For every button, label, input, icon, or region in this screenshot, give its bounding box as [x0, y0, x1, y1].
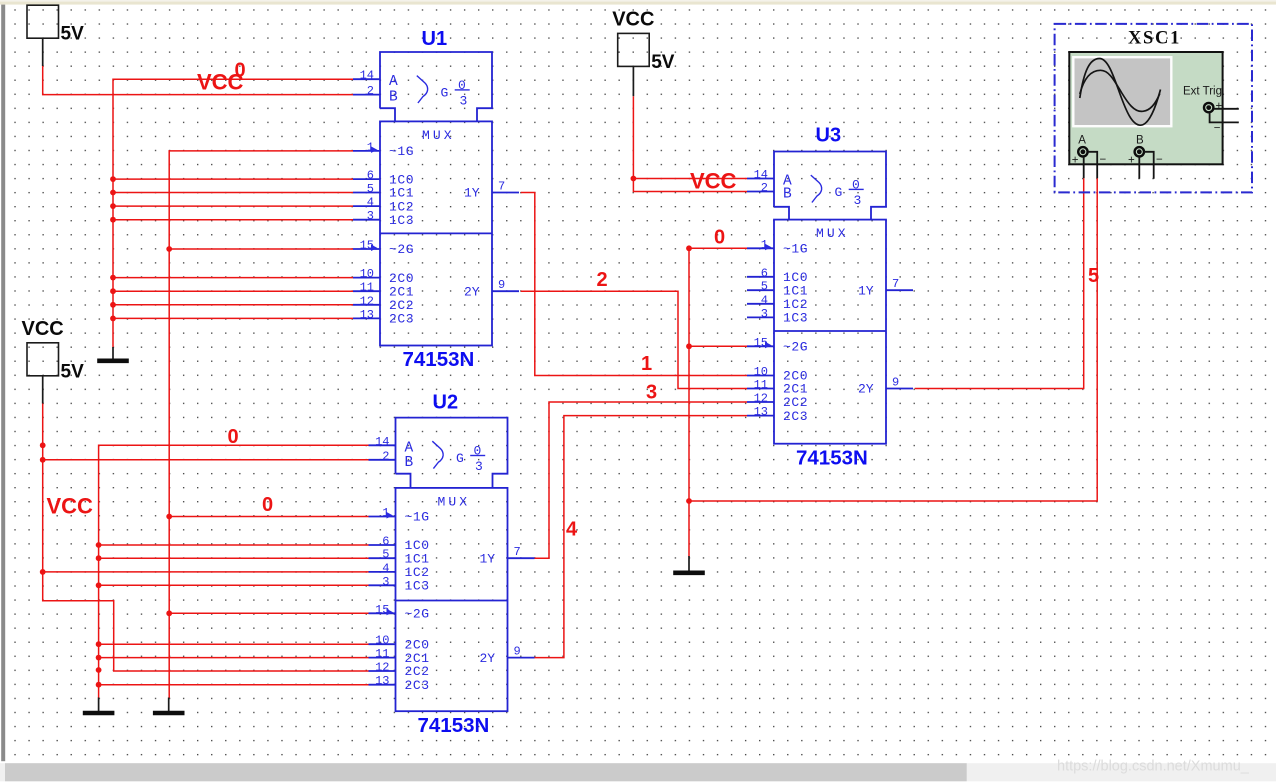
- junction U2 pin 15 branch: [166, 610, 172, 616]
- wire net 0: bus to U2 pin 11: [99, 657, 369, 659]
- wire net 0: bus to U2 pin 3: [99, 584, 369, 586]
- U1 section divider: [380, 232, 492, 234]
- U2 output pin stubs 7 and 9: [508, 558, 535, 657]
- svg-text:0: 0: [228, 426, 239, 448]
- U3 select inputs A B: [783, 174, 792, 203]
- window chrome top strip: [0, 0, 1276, 5]
- oscilloscope XSC1: [1055, 24, 1252, 193]
- U1 select inputs A B: [389, 74, 398, 105]
- junction U3 net0 pin 1: [686, 245, 692, 251]
- wire net VCC: branch to U3 pin 14: [633, 178, 747, 180]
- svg-text:+: +: [1072, 155, 1079, 167]
- svg-text:Ext Trig: Ext Trig: [1183, 85, 1222, 97]
- wire net 0: bus to U2 pin 10: [99, 643, 369, 645]
- svg-text:G: G: [835, 185, 843, 200]
- svg-text:7: 7: [498, 180, 505, 194]
- wire net 3: U2 1Y to U3 pin 12: [535, 402, 748, 558]
- svg-text:5: 5: [1088, 265, 1099, 287]
- U1 common select brace: [417, 76, 428, 103]
- XSC1 Ext Trig connector: [1204, 103, 1213, 112]
- wire net 1: U1 1Y to U3 pin 10: [521, 193, 747, 376]
- XSC1 selection dashed boundary: [1055, 24, 1252, 193]
- junction U2 pin 1 branch: [166, 514, 172, 520]
- junction U2 bus node b: [96, 667, 102, 673]
- U2 left pin stubs: [369, 445, 396, 684]
- svg-text:10: 10: [360, 267, 374, 281]
- svg-text:2C3: 2C3: [389, 312, 414, 327]
- U2 common select brace: [432, 441, 443, 468]
- svg-text:10: 10: [754, 365, 768, 379]
- svg-text:XSC1: XSC1: [1128, 29, 1181, 49]
- svg-text:1C3: 1C3: [389, 213, 414, 228]
- junction VCC2 node a: [40, 442, 46, 448]
- wire net 0: bus to U1 pin 4: [113, 205, 353, 207]
- U2 G 0/3 label: [456, 444, 483, 475]
- svg-text:4: 4: [367, 196, 374, 210]
- svg-text:3: 3: [761, 307, 768, 321]
- svg-text:6: 6: [367, 169, 374, 183]
- svg-text:3: 3: [475, 459, 483, 474]
- wire net VCC: branch to U2 pin 2: [43, 459, 369, 461]
- svg-text:+: +: [1216, 101, 1223, 113]
- junction U1 bus 2C0: [110, 275, 116, 281]
- wire net 0: bus to U1 pin 10: [113, 277, 353, 279]
- svg-text:2Y: 2Y: [480, 651, 496, 666]
- svg-text:−: −: [1214, 123, 1221, 135]
- junction U1 bus 1C0: [110, 176, 116, 182]
- svg-text:5: 5: [382, 548, 389, 562]
- svg-text:5V: 5V: [651, 52, 675, 73]
- junction U2 bus 1C3: [96, 582, 102, 588]
- svg-text:12: 12: [754, 392, 768, 406]
- XSC1 channel A connector: [1078, 147, 1087, 156]
- svg-text:2Y: 2Y: [464, 284, 480, 299]
- svg-text:5: 5: [761, 280, 768, 294]
- wire net 0: bus to U1 pin 12: [113, 304, 353, 306]
- svg-text:12: 12: [360, 294, 374, 308]
- svg-text:10: 10: [375, 634, 389, 648]
- svg-text:74153N: 74153N: [403, 348, 475, 371]
- svg-text:3: 3: [367, 209, 374, 223]
- U2 section divider: [396, 600, 508, 602]
- wire net 0: bus to U1 pin 11: [113, 290, 353, 292]
- svg-text:VCC: VCC: [612, 8, 654, 30]
- svg-text:G: G: [441, 85, 449, 100]
- svg-text:1Y: 1Y: [480, 551, 496, 566]
- svg-text:4: 4: [566, 519, 578, 541]
- wire net 0: U1 pin 14 (A) to ground bus: [113, 79, 353, 347]
- U2 input labels: [405, 510, 430, 693]
- U3 left pin stubs: [747, 179, 774, 416]
- svg-text:1Y: 1Y: [464, 186, 480, 201]
- U3 common select brace: [811, 175, 822, 202]
- svg-text:5: 5: [367, 182, 374, 196]
- svg-text:2: 2: [382, 449, 389, 463]
- XSC1 channel A pin stubs: [1083, 157, 1085, 178]
- svg-text:~2G: ~2G: [405, 607, 430, 622]
- svg-text:0: 0: [474, 444, 482, 459]
- svg-text:1: 1: [367, 140, 374, 154]
- wire net VCC: VCC3 source to U3 pin 2: [633, 96, 747, 191]
- svg-text:1Y: 1Y: [858, 283, 874, 298]
- svg-text:G: G: [456, 451, 464, 466]
- multiplexer U1 74153N: [353, 52, 519, 346]
- svg-text:2C3: 2C3: [783, 409, 808, 424]
- U2 select inputs A B: [405, 440, 414, 471]
- svg-text:U2: U2: [433, 392, 459, 414]
- svg-text:0: 0: [458, 78, 466, 93]
- svg-text:1C3: 1C3: [783, 311, 808, 326]
- U1 pin number labels: [360, 69, 506, 322]
- wire net 4: U2 2Y to U3 pin 13: [535, 416, 748, 658]
- U3 MUX body outline: [774, 220, 886, 444]
- svg-text:U3: U3: [816, 125, 842, 147]
- multiplexer U2 74153N: [369, 418, 535, 712]
- svg-text:12: 12: [375, 661, 389, 675]
- junction U2 bus 1C0: [96, 542, 102, 548]
- wire net VCC: branch to U2 pin 4: [43, 571, 369, 573]
- svg-text:U1: U1: [422, 28, 448, 50]
- svg-text:14: 14: [375, 435, 389, 449]
- svg-text:74153N: 74153N: [418, 714, 490, 737]
- U1 common-control block outline: [380, 52, 492, 121]
- svg-text:14: 14: [754, 168, 768, 182]
- svg-text:11: 11: [375, 647, 389, 661]
- wire net VCC: VCC2 source down to U2 pin 12 branch: [43, 404, 369, 672]
- U3 common-control block outline: [774, 152, 886, 220]
- U1 left pin stubs: [353, 79, 380, 318]
- XSC1 screen waveform 1: [1080, 59, 1161, 126]
- XSC1 channel B pin stubs: [1139, 152, 1153, 179]
- svg-text:~2G: ~2G: [783, 340, 808, 355]
- svg-text:4: 4: [382, 561, 389, 575]
- svg-text:13: 13: [360, 308, 374, 322]
- svg-text:https://blog.csdn.net/Xmumu_: https://blog.csdn.net/Xmumu_: [1057, 759, 1250, 775]
- svg-text:5V: 5V: [61, 24, 85, 45]
- svg-text:14: 14: [360, 69, 374, 83]
- ground G1 (U1 input bus): [97, 347, 129, 361]
- svg-text:A: A: [389, 74, 398, 90]
- wire net 0: bus to U2 pin 5: [99, 557, 369, 559]
- wire net 0: bus to U2 pin 6: [99, 544, 369, 546]
- svg-text:A: A: [1078, 135, 1086, 147]
- svg-text:~1G: ~1G: [389, 144, 414, 159]
- svg-text:13: 13: [375, 674, 389, 688]
- svg-text:11: 11: [754, 378, 768, 392]
- XSC1 Ext Trig minus wire: [1210, 113, 1239, 123]
- junction U1 bus 1C1: [110, 190, 116, 196]
- junction U1 bus 1C2: [110, 203, 116, 209]
- svg-text:1: 1: [641, 353, 652, 375]
- svg-text:1: 1: [382, 506, 389, 520]
- horizontal scrollbar thumb: [5, 763, 967, 781]
- power source VCC2 5V: [22, 318, 85, 404]
- svg-text:MUX: MUX: [816, 226, 849, 241]
- multiplexer U3 74153N: [747, 152, 913, 444]
- power source VCC3 5V: [612, 8, 675, 96]
- junction VCC2 to U2 pin 4: [40, 569, 46, 575]
- wire net 0: bus to U1 pin 5: [113, 192, 353, 194]
- horizontal scrollbar track: [0, 763, 1276, 781]
- ground G2 (U2 input bus): [83, 698, 115, 714]
- wire net 0: U3 pin 1 branch down to ground G4: [689, 248, 747, 556]
- svg-text:5V: 5V: [61, 361, 85, 382]
- U1 MUX body outline: [380, 121, 492, 345]
- wire net 0: branch to U2 pin 1: [169, 516, 368, 518]
- svg-text:B: B: [389, 90, 398, 106]
- XSC1 channel B connector: [1135, 147, 1144, 156]
- U1 input labels: [389, 144, 414, 327]
- svg-text:9: 9: [498, 278, 505, 292]
- junction U1 bus 2C2: [110, 302, 116, 308]
- svg-text:4: 4: [761, 293, 768, 307]
- svg-text:1: 1: [761, 238, 768, 252]
- wire net 0: bus to U1 pin 13: [113, 317, 353, 319]
- svg-text:11: 11: [360, 281, 374, 295]
- svg-text:0: 0: [714, 227, 725, 249]
- U2 MUX body outline: [396, 488, 508, 711]
- U2 pin number labels: [375, 435, 521, 688]
- wire net 0: branch to U3 pin 15: [689, 345, 747, 347]
- svg-text:6: 6: [382, 535, 389, 549]
- svg-text:3: 3: [382, 575, 389, 589]
- svg-text:0: 0: [262, 494, 273, 516]
- svg-text:~1G: ~1G: [783, 242, 808, 257]
- U3 pin number labels: [754, 168, 900, 419]
- power source VCC1 5V: [27, 5, 84, 66]
- U3 output pin stubs 7 and 9: [886, 290, 913, 388]
- junction U2 bus 2C0: [96, 641, 102, 647]
- U3 input labels: [783, 242, 808, 424]
- U2 common-control block outline: [396, 418, 508, 488]
- U3 pin 1 and 15 arrows: [765, 244, 772, 251]
- wire net 2: U1 2Y to U3 pin 11: [521, 291, 747, 388]
- svg-text:3: 3: [854, 193, 862, 208]
- wire net VCC: VCC1 source to U1 pin 2 (B): [43, 66, 353, 95]
- svg-text:7: 7: [892, 277, 899, 291]
- ground G4 (U3 net): [673, 556, 705, 573]
- wire net 0: bus to U2 pin 13: [99, 684, 369, 686]
- junction U3 net0 pin 15: [686, 343, 692, 349]
- svg-text:1C3: 1C3: [405, 579, 430, 594]
- junction U2 bus 1C1: [96, 555, 102, 561]
- svg-text:2C3: 2C3: [405, 678, 430, 693]
- svg-text:~1G: ~1G: [405, 510, 430, 525]
- svg-text:−: −: [1156, 154, 1163, 166]
- svg-text:VCC: VCC: [47, 494, 94, 519]
- junction U1 bus 1C3: [110, 217, 116, 223]
- svg-text:2Y: 2Y: [858, 382, 874, 397]
- svg-text:~2G: ~2G: [389, 242, 414, 257]
- junction U2 bus 2C1: [96, 655, 102, 661]
- svg-text:13: 13: [754, 405, 768, 419]
- junction U3 net0 scope branch: [686, 498, 692, 504]
- svg-text:B: B: [405, 455, 414, 471]
- U3 section divider: [774, 330, 886, 332]
- U3 G 0/3 label: [835, 177, 862, 208]
- svg-text:+: +: [1128, 155, 1135, 167]
- svg-text:0: 0: [235, 60, 246, 82]
- svg-text:74153N: 74153N: [796, 447, 868, 470]
- U1 pin 1 and 15 arrows: [371, 146, 378, 153]
- svg-text:3: 3: [460, 93, 468, 108]
- junction U2 bus 2C3: [96, 682, 102, 688]
- svg-text:9: 9: [892, 376, 899, 390]
- junction VCC2 to U2 pin 2: [40, 457, 46, 463]
- svg-text:7: 7: [514, 545, 521, 559]
- wire net 0: branch to U1 pin 15: [169, 248, 353, 250]
- svg-text:9: 9: [514, 645, 521, 659]
- wire net 0: U1 pin 1 down to ground G3: [169, 151, 353, 698]
- junction U1 bus 2C1: [110, 288, 116, 294]
- wire net 5: U3 2Y to scope A+ input: [915, 178, 1084, 388]
- junction VCC3 to U3 pin 14: [631, 176, 637, 182]
- wire net 0: branch to scope A- input: [689, 178, 1097, 501]
- U1 output pin stubs 7 and 9: [492, 193, 519, 292]
- ground G3 (select net): [153, 698, 185, 714]
- XSC1 instrument body: [1069, 52, 1222, 164]
- U2 pin 1 and 15 arrows: [387, 512, 394, 519]
- svg-text:B: B: [1136, 135, 1144, 147]
- XSC1 screen waveform 2: [1080, 70, 1160, 111]
- wire net 0: bus to U1 pin 3: [113, 219, 353, 221]
- svg-text:VCC: VCC: [690, 169, 737, 194]
- svg-text:B: B: [783, 187, 792, 203]
- svg-text:VCC: VCC: [22, 318, 64, 340]
- svg-text:2: 2: [597, 269, 608, 291]
- junction U1 bus 2C3: [110, 316, 116, 322]
- wire net 0: bus to U1 pin 6: [113, 178, 353, 180]
- wire net 0: branch to U2 pin 15: [169, 612, 368, 614]
- XSC1 screen: [1073, 57, 1171, 126]
- svg-text:3: 3: [646, 382, 657, 404]
- wire net 0: U2 pin 14 to ground bus G2: [99, 445, 369, 698]
- svg-text:2: 2: [761, 181, 768, 195]
- svg-text:0: 0: [852, 177, 860, 192]
- svg-text:MUX: MUX: [422, 128, 455, 143]
- junction U1 pin 15 branch: [166, 246, 172, 252]
- svg-text:MUX: MUX: [438, 494, 471, 509]
- U1 G 0/3 label: [441, 78, 468, 109]
- svg-text:6: 6: [761, 266, 768, 280]
- window chrome left strip: [1, 5, 5, 762]
- XSC1 Ext Trig plus wire: [1214, 108, 1239, 110]
- svg-text:2: 2: [367, 84, 374, 98]
- svg-text:−: −: [1100, 154, 1107, 166]
